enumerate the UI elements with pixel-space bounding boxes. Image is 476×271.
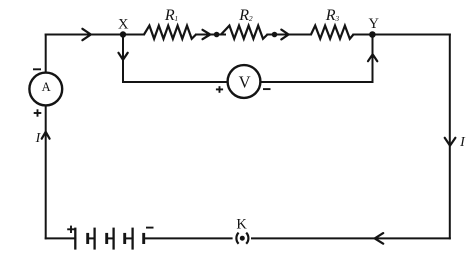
svg-text:1: 1 — [174, 14, 178, 23]
svg-text:Y: Y — [369, 16, 380, 32]
svg-text:V: V — [239, 73, 251, 92]
svg-text:I: I — [459, 135, 466, 150]
svg-text:K: K — [236, 216, 247, 232]
svg-text:3: 3 — [334, 14, 339, 23]
svg-text:R: R — [164, 7, 175, 24]
svg-text:R: R — [238, 7, 249, 24]
svg-text:R: R — [325, 7, 336, 24]
svg-text:2: 2 — [249, 14, 253, 23]
svg-text:A: A — [42, 80, 51, 94]
svg-text:I: I — [35, 131, 42, 146]
svg-text:X: X — [118, 16, 129, 32]
